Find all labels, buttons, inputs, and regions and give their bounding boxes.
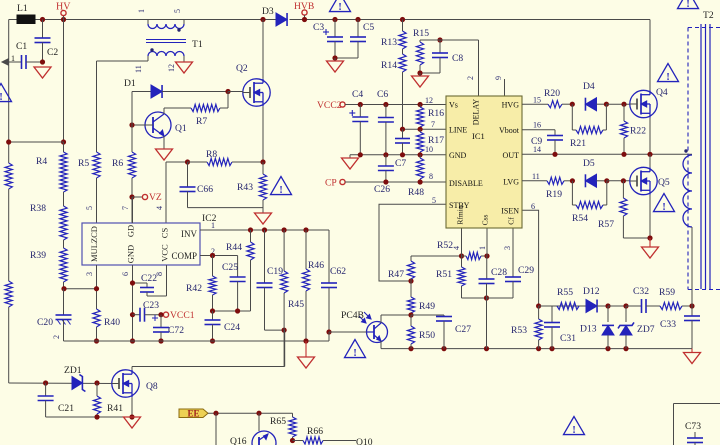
svg-text:C32: C32 <box>633 286 649 297</box>
svg-text:C31: C31 <box>560 333 576 344</box>
svg-text:C8: C8 <box>452 53 463 64</box>
svg-text:D4: D4 <box>583 81 595 92</box>
svg-text:R50: R50 <box>419 330 435 341</box>
svg-text:!: ! <box>353 348 356 359</box>
svg-text:11: 11 <box>134 65 143 73</box>
svg-text:COMP: COMP <box>171 251 197 261</box>
svg-text:C4: C4 <box>352 89 363 100</box>
svg-text:Q1: Q1 <box>175 123 187 134</box>
svg-text:!: ! <box>572 425 575 436</box>
svg-text:R48: R48 <box>408 187 424 198</box>
svg-text:C25: C25 <box>222 262 238 273</box>
svg-text:DISABLE: DISABLE <box>449 179 483 188</box>
svg-text:D3: D3 <box>262 6 274 17</box>
svg-text:6: 6 <box>121 272 130 276</box>
svg-text:INV: INV <box>181 229 197 239</box>
svg-text:Rfmin: Rfmin <box>456 205 465 224</box>
svg-text:C26: C26 <box>374 184 390 195</box>
svg-text:T1: T1 <box>192 39 203 50</box>
svg-text:Q4: Q4 <box>656 87 668 98</box>
svg-text:!: ! <box>0 92 3 103</box>
svg-text:R21: R21 <box>570 138 586 149</box>
svg-text:R42: R42 <box>186 283 202 294</box>
svg-text:LVG: LVG <box>503 178 519 187</box>
svg-text:R43: R43 <box>237 182 253 193</box>
svg-text:HVB: HVB <box>294 1 314 12</box>
svg-text:LINE: LINE <box>449 126 467 135</box>
svg-text:5: 5 <box>432 196 436 205</box>
svg-text:!: ! <box>662 202 665 213</box>
svg-text:R5: R5 <box>78 158 89 169</box>
svg-text:C23: C23 <box>143 300 159 311</box>
svg-text:3: 3 <box>85 272 94 276</box>
svg-text:DELAY: DELAY <box>472 99 481 126</box>
svg-text:IC1: IC1 <box>472 131 485 141</box>
svg-text:MULZCD: MULZCD <box>89 226 99 262</box>
svg-text:R16: R16 <box>428 108 444 119</box>
svg-text:5: 5 <box>173 9 182 13</box>
svg-text:CS: CS <box>160 228 170 239</box>
svg-text:R46: R46 <box>308 260 324 271</box>
svg-text:VCC1: VCC1 <box>170 310 195 321</box>
svg-text:PC4B: PC4B <box>341 310 364 321</box>
svg-text:Q5: Q5 <box>658 177 670 188</box>
svg-text:R51: R51 <box>436 269 452 280</box>
svg-text:1: 1 <box>478 246 487 250</box>
svg-text:R14: R14 <box>381 60 397 71</box>
svg-text:10: 10 <box>425 145 433 154</box>
svg-text:Q2: Q2 <box>236 63 248 74</box>
svg-text:C9: C9 <box>531 136 542 147</box>
svg-text:ZD7: ZD7 <box>637 324 655 335</box>
svg-text:Vboot: Vboot <box>499 126 520 135</box>
svg-text:R41: R41 <box>107 403 123 414</box>
svg-text:R45: R45 <box>288 299 304 310</box>
svg-text:R22: R22 <box>630 126 646 137</box>
svg-text:T2: T2 <box>703 10 714 21</box>
svg-text:R6: R6 <box>112 158 123 169</box>
svg-text:!: ! <box>279 185 282 196</box>
svg-text:R4: R4 <box>36 156 47 167</box>
svg-text:R54: R54 <box>572 213 588 224</box>
svg-text:GND: GND <box>449 151 467 160</box>
svg-text:D5: D5 <box>583 158 595 169</box>
svg-text:R49: R49 <box>419 301 435 312</box>
svg-text:C29: C29 <box>518 265 534 276</box>
svg-text:EE: EE <box>187 409 199 419</box>
svg-text:5: 5 <box>85 206 94 210</box>
svg-text:R44: R44 <box>226 242 242 253</box>
svg-text:R7: R7 <box>196 116 207 127</box>
svg-text:R38: R38 <box>30 203 46 214</box>
svg-text:D12: D12 <box>583 286 600 297</box>
svg-text:R47: R47 <box>388 269 404 280</box>
svg-text:C72: C72 <box>168 325 184 336</box>
svg-text:1: 1 <box>137 9 146 13</box>
svg-text:VZ: VZ <box>149 192 162 203</box>
svg-text:Css: Css <box>481 215 490 226</box>
svg-text:1: 1 <box>211 221 215 230</box>
svg-text:!: ! <box>338 2 341 13</box>
svg-text:C3: C3 <box>313 22 324 33</box>
svg-text:VCC2: VCC2 <box>317 100 342 111</box>
svg-text:Q10: Q10 <box>356 437 373 445</box>
svg-text:R39: R39 <box>30 250 46 261</box>
svg-text:C22: C22 <box>141 273 157 284</box>
svg-text:R57: R57 <box>598 219 614 230</box>
svg-text:4: 4 <box>155 206 164 210</box>
svg-text:C73: C73 <box>685 421 701 432</box>
svg-text:HVG: HVG <box>502 101 520 110</box>
svg-text:7: 7 <box>121 206 130 210</box>
svg-text:R52: R52 <box>437 240 453 251</box>
svg-text:C1: C1 <box>16 41 27 52</box>
svg-text:!: ! <box>666 72 669 83</box>
svg-text:R15: R15 <box>413 28 429 39</box>
svg-text:C2: C2 <box>47 47 58 58</box>
svg-text:R8: R8 <box>206 149 217 160</box>
svg-text:R53: R53 <box>511 325 527 336</box>
svg-text:7: 7 <box>431 120 435 129</box>
svg-text:C24: C24 <box>224 322 240 333</box>
svg-text:15: 15 <box>533 96 541 105</box>
svg-text:C5: C5 <box>363 22 374 33</box>
svg-text:C21: C21 <box>58 403 74 414</box>
svg-text:1: 1 <box>11 54 15 63</box>
svg-text:R13: R13 <box>381 37 397 48</box>
svg-text:OUT: OUT <box>503 151 520 160</box>
svg-text:R20: R20 <box>544 88 560 99</box>
svg-text:VCC: VCC <box>160 244 170 262</box>
svg-text:D13: D13 <box>580 324 597 335</box>
svg-text:D1: D1 <box>124 78 136 89</box>
svg-text:2: 2 <box>466 76 475 80</box>
svg-text:6: 6 <box>531 202 535 211</box>
svg-text:C28: C28 <box>491 267 507 278</box>
svg-text:C33: C33 <box>660 319 676 330</box>
svg-text:Vs: Vs <box>449 101 458 110</box>
svg-text:C27: C27 <box>455 324 471 335</box>
svg-text:3: 3 <box>503 246 512 250</box>
svg-text:16: 16 <box>533 121 541 130</box>
svg-text:C6: C6 <box>377 89 388 100</box>
svg-text:Q8: Q8 <box>146 381 158 392</box>
svg-text:9: 9 <box>494 76 503 80</box>
svg-text:12: 12 <box>167 64 176 72</box>
svg-text:2: 2 <box>52 335 61 339</box>
svg-text:CP: CP <box>325 178 337 189</box>
svg-text:HV: HV <box>56 2 71 13</box>
svg-text:11: 11 <box>532 172 540 181</box>
svg-text:ISEN: ISEN <box>501 207 519 216</box>
svg-text:R66: R66 <box>307 426 323 437</box>
svg-text:R19: R19 <box>546 189 562 200</box>
svg-text:Q16: Q16 <box>230 436 247 445</box>
svg-text:12: 12 <box>425 96 433 105</box>
svg-text:R40: R40 <box>104 317 120 328</box>
svg-text:L1: L1 <box>17 3 28 14</box>
svg-text:R59: R59 <box>659 287 675 298</box>
svg-text:ZD1: ZD1 <box>64 365 82 376</box>
svg-text:C66: C66 <box>197 184 213 195</box>
svg-text:C20: C20 <box>37 317 53 328</box>
svg-text:R55: R55 <box>557 287 573 298</box>
svg-text:!: ! <box>686 0 689 10</box>
svg-text:4: 4 <box>452 246 461 250</box>
svg-text:GD: GD <box>126 225 136 237</box>
svg-text:8: 8 <box>429 172 433 181</box>
svg-text:GND: GND <box>126 245 136 263</box>
svg-text:Cf: Cf <box>507 217 516 225</box>
svg-text:C62: C62 <box>330 266 346 277</box>
svg-text:C7: C7 <box>395 158 406 169</box>
svg-text:R65: R65 <box>270 416 286 427</box>
